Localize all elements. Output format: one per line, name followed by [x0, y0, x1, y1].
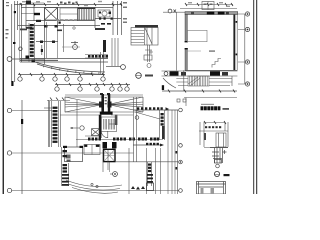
double circle column — [113, 172, 118, 177]
bowtie right — [108, 97, 143, 112]
mid wall marks — [40, 41, 55, 44]
bottom marks — [131, 186, 145, 190]
thick wall bar center — [103, 40, 106, 52]
bottom wall band — [162, 71, 238, 76]
axis line right — [106, 66, 121, 68]
interior annotation text row — [56, 19, 77, 21]
left dim vertical — [21, 100, 23, 194]
right axis bubbles — [238, 12, 250, 86]
top right window row + axis — [133, 109, 178, 111]
top dimension line — [14, 4, 122, 6]
top-left room grid — [21, 3, 44, 14]
south window rows — [76, 136, 163, 140]
balcony lines — [163, 70, 232, 91]
elevator crosshatch box — [45, 8, 58, 21]
x-box — [92, 129, 100, 136]
axis bubble left — [168, 9, 172, 13]
arrow line y145 — [133, 144, 163, 146]
right mid verticals — [112, 38, 118, 66]
inner room box — [187, 30, 207, 41]
south window row — [85, 55, 108, 59]
top dimension lines — [180, 5, 237, 9]
sheet border right — [253, 0, 254, 194]
blobs on line y18.5 — [99, 18, 113, 20]
shaft square — [104, 149, 116, 161]
bowtie left — [65, 97, 103, 112]
dim verticals left — [12, 1, 18, 82]
top dim of bowties — [65, 94, 143, 96]
top wall band — [185, 12, 238, 15]
horizontals — [18, 8, 113, 63]
section cut symbol — [71, 41, 78, 49]
mid landing box — [47, 8, 79, 58]
detail 1 — [199, 122, 228, 148]
left axis bubbles — [7, 108, 11, 192]
line under toilet room — [95, 18, 121, 20]
axis line to left — [163, 11, 185, 13]
porch line left — [175, 12, 177, 70]
bottom dimension line 2 — [55, 83, 130, 91]
west window wall blobs — [29, 23, 35, 62]
east walls — [134, 97, 137, 162]
room box lower — [65, 147, 83, 162]
wall corner blobs SW — [26, 56, 30, 60]
bottom wall top edge — [185, 69, 237, 71]
left wall gray — [185, 15, 187, 42]
curved balcony — [35, 62, 105, 75]
right margin small text — [123, 2, 127, 23]
sheet border left — [3, 0, 4, 194]
toilet room — [98, 10, 110, 17]
center core walls — [101, 94, 104, 112]
axis bubble bottom-left — [164, 72, 168, 76]
stair treads box — [78, 8, 95, 20]
wall C blobs — [148, 162, 152, 186]
vertical x48 — [49, 100, 78, 147]
top small box — [202, 2, 214, 10]
bottom dim line — [162, 85, 164, 90]
two small squares above bowties right — [177, 99, 180, 102]
right dim verticals — [113, 1, 122, 35]
left axis bubble row2 — [7, 57, 12, 62]
axis bubble right — [121, 65, 126, 70]
dim text marks above top line — [22, 1, 102, 6]
detail 3 — [197, 182, 226, 195]
mid axis line — [116, 148, 178, 194]
detail number bubble — [136, 73, 142, 79]
tick marks on top dim — [20, 3, 122, 6]
stair core — [101, 117, 116, 138]
roof step — [212, 59, 221, 68]
wall B blobs — [62, 147, 69, 186]
right window stack — [160, 110, 165, 140]
right wall — [233, 15, 235, 71]
left margin text marks — [6, 2, 10, 39]
detail bubble — [214, 171, 219, 176]
bottom dimension line 1 — [18, 73, 105, 81]
room box B — [84, 145, 100, 155]
wall verticals — [22, 3, 96, 64]
shore curves bottom — [66, 150, 122, 193]
detail 2 — [210, 148, 228, 168]
west wall with window blobs — [50, 101, 61, 147]
small text marks above stair — [60, 2, 78, 5]
circle + tick mid left — [80, 126, 84, 130]
stair treads bottom — [188, 76, 209, 86]
left tick blob — [11, 81, 13, 86]
